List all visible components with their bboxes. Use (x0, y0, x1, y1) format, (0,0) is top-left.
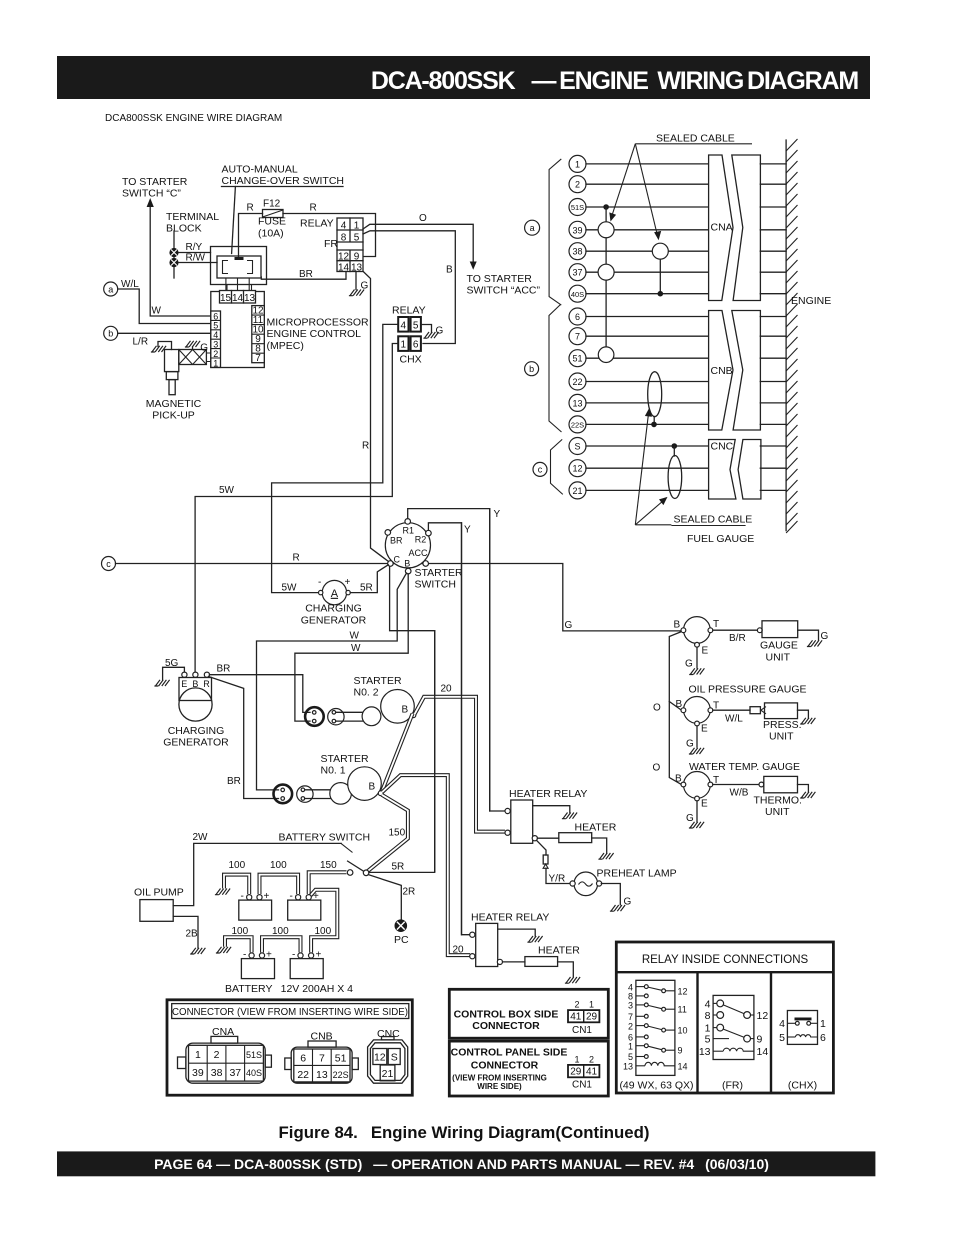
svg-text:SEALED CABLE: SEALED CABLE (656, 133, 735, 145)
svg-text:W: W (152, 306, 162, 317)
svg-text:CHARGING: CHARGING (305, 603, 362, 615)
footer bar (57, 1151, 875, 1176)
charging generator A (meter) (282, 577, 373, 627)
svg-text:-: - (290, 891, 293, 902)
svg-text:5: 5 (705, 1034, 711, 1046)
header bar (57, 56, 870, 99)
heater 2 (503, 945, 581, 984)
svg-text:22S: 22S (571, 421, 584, 430)
wire 5R battery switch to label (369, 862, 435, 873)
wire Y restroke over crossings (435, 509, 490, 935)
svg-text:3: 3 (628, 1001, 633, 1011)
wire 2W oil pump to battery switch (173, 832, 341, 906)
svg-text:CNC: CNC (711, 441, 734, 453)
svg-text:B: B (369, 782, 376, 793)
wire W/L oil gauge T to press unit (713, 707, 766, 725)
svg-text:MICROPROCESSOR: MICROPROCESSOR (267, 317, 370, 329)
node 1 (569, 155, 786, 172)
svg-text:b: b (529, 364, 534, 374)
starter no.1 label (321, 753, 369, 777)
svg-text:R: R (293, 553, 300, 564)
svg-text:13: 13 (572, 398, 582, 408)
svg-text:41: 41 (586, 1067, 598, 1078)
svg-text:4: 4 (341, 221, 347, 232)
svg-text:CONNECTOR: CONNECTOR (472, 1020, 540, 1032)
starter no.2 label (354, 675, 402, 699)
svg-text:B: B (402, 705, 409, 716)
brace a (549, 159, 561, 305)
page subtitle (105, 113, 282, 124)
svg-text:CNA: CNA (711, 222, 733, 234)
svg-text:RELAY INSIDE CONNECTIONS: RELAY INSIDE CONNECTIONS (642, 954, 809, 966)
svg-text:R1: R1 (403, 526, 415, 536)
svg-text:51S: 51S (571, 203, 584, 212)
svg-text:9: 9 (354, 252, 360, 263)
node 12 (569, 460, 786, 477)
label TO STARTER SWITCH "C" (122, 176, 188, 200)
svg-text:BR: BR (227, 776, 241, 787)
sealed cable label (top) with leader arrows (609, 133, 752, 241)
svg-text:BR: BR (299, 269, 313, 280)
control box side connector (449, 989, 608, 1038)
svg-text:13: 13 (244, 293, 256, 304)
svg-text:+: + (316, 950, 322, 961)
svg-text:OIL PRESSURE GAUGE: OIL PRESSURE GAUGE (689, 684, 807, 696)
svg-text:G: G (686, 739, 694, 750)
link 100 battery 1 plus to battery 2 minus (260, 860, 299, 894)
oil pressure gauge (676, 684, 807, 735)
node b (L/R) (104, 326, 211, 347)
svg-text:CONTROL BOX SIDE: CONTROL BOX SIDE (454, 1008, 559, 1020)
svg-text:S: S (391, 1052, 398, 1064)
svg-text:-: - (318, 577, 321, 588)
svg-text:7: 7 (255, 353, 261, 364)
svg-text:14: 14 (232, 293, 244, 304)
starter switch (385, 519, 463, 591)
node 39 (569, 221, 786, 238)
svg-text:9: 9 (757, 1034, 763, 1046)
wire R/W (179, 253, 217, 264)
starter no.1 connector and motor (274, 767, 384, 804)
svg-text:(CHX): (CHX) (788, 1080, 817, 1092)
wire BR relay FR to change-over switch (261, 269, 346, 280)
svg-text:2B: 2B (186, 929, 199, 940)
svg-text:CNB: CNB (711, 365, 733, 377)
svg-text:GENERATOR: GENERATOR (301, 615, 367, 627)
svg-text:150: 150 (389, 828, 406, 839)
svg-text:W: W (351, 643, 361, 654)
svg-text:Y: Y (494, 509, 501, 520)
wire B relay to CHX pin 6 (363, 231, 455, 344)
relay CHX internals (779, 1011, 826, 1092)
svg-text:CNC: CNC (377, 1028, 400, 1040)
svg-text:C: C (394, 554, 401, 564)
connector CNB (709, 311, 761, 431)
svg-text:R: R (203, 679, 210, 689)
ground at magnetic pick-up left (151, 342, 172, 353)
svg-text:Y: Y (464, 525, 471, 536)
svg-text:5: 5 (779, 1032, 785, 1044)
svg-text:+: + (313, 891, 319, 902)
wire W/B water gauge T to thermo unit (713, 785, 759, 799)
auto-manual change-over switch body (211, 247, 267, 291)
svg-text:HEATER: HEATER (538, 945, 580, 957)
svg-text:R/Y: R/Y (186, 242, 203, 253)
svg-text:1: 1 (354, 221, 360, 232)
svg-text:37: 37 (229, 1067, 241, 1079)
svg-text:20: 20 (453, 945, 465, 956)
svg-text:O: O (419, 213, 427, 224)
node 7 (569, 328, 786, 345)
svg-text:DCA800SSK ENGINE WIRE DIAGRAM: DCA800SSK ENGINE WIRE DIAGRAM (105, 113, 282, 124)
svg-text:W/B: W/B (730, 788, 749, 799)
svg-text:+: + (266, 950, 272, 961)
wire 150 from starter no.1 B to battery switch (367, 795, 408, 872)
svg-text:ENGINE: ENGINE (791, 295, 831, 307)
svg-text:100: 100 (270, 860, 287, 871)
press unit (763, 703, 815, 743)
svg-text:PREHEAT LAMP: PREHEAT LAMP (597, 868, 677, 880)
heater relay 2 (453, 912, 550, 967)
svg-text:(10A): (10A) (258, 228, 284, 240)
svg-text:21: 21 (382, 1068, 394, 1080)
svg-text:7: 7 (319, 1053, 325, 1065)
node b marker (525, 362, 539, 376)
svg-text:1: 1 (589, 999, 594, 1009)
svg-text:R: R (362, 441, 369, 452)
svg-text:N0. 1: N0. 1 (321, 765, 346, 777)
svg-text:6: 6 (413, 340, 419, 351)
svg-text:BLOCK: BLOCK (166, 223, 202, 235)
svg-text:AUTO-MANUAL: AUTO-MANUAL (222, 164, 298, 176)
splice chain 51S-39-37-51 (598, 204, 614, 362)
connector CNC (view) (368, 1028, 408, 1083)
svg-text:UNIT: UNIT (765, 806, 790, 818)
svg-text:O: O (653, 763, 661, 774)
svg-text:T: T (713, 619, 719, 630)
wire R from relay FR to starter switch C (362, 272, 389, 562)
gauge unit (757, 621, 828, 664)
svg-text:CHANGE-OVER SWITCH: CHANGE-OVER SWITCH (222, 175, 345, 187)
fusible link to preheat lamp (537, 840, 571, 884)
svg-text:100: 100 (229, 860, 246, 871)
svg-text:STARTER: STARTER (321, 753, 369, 765)
ground at heater relay 2 coil (498, 929, 543, 942)
svg-text:CHX: CHX (400, 354, 422, 366)
wire 20 between starter B terminals (382, 714, 413, 792)
svg-text:a: a (108, 284, 113, 294)
battery 2 (288, 891, 321, 920)
ground at water gauge E (686, 801, 704, 828)
svg-text:UNIT: UNIT (769, 731, 794, 743)
wire 5W CHX pin 1 to charging generator B (195, 344, 398, 673)
svg-text:5R: 5R (360, 583, 373, 594)
heater 1 (537, 822, 616, 860)
node 51S (569, 199, 786, 216)
svg-text:13: 13 (623, 1062, 633, 1072)
svg-text:B: B (676, 699, 683, 710)
svg-text:B: B (674, 620, 681, 631)
wire O fuel gauge B down to oil and water gauges (653, 632, 682, 784)
svg-text:29: 29 (570, 1067, 582, 1078)
svg-text:22: 22 (572, 377, 582, 387)
svg-text:-: - (241, 891, 244, 902)
svg-text:CN1: CN1 (572, 1079, 592, 1090)
svg-text:13: 13 (316, 1069, 328, 1081)
svg-text:SEALED CABLE: SEALED CABLE (674, 514, 753, 526)
node 40S (569, 285, 786, 302)
svg-text:G: G (200, 343, 208, 354)
relay CHX box (398, 317, 421, 351)
node S (569, 438, 786, 455)
svg-text:B/R: B/R (729, 633, 746, 644)
wire R fuse to relay (283, 203, 376, 257)
svg-text:a: a (530, 223, 535, 233)
svg-text:OIL PUMP: OIL PUMP (134, 887, 184, 899)
node a marker (525, 220, 540, 235)
svg-text:GENERATOR: GENERATOR (163, 737, 229, 749)
link battery 2 plus to battery 4 plus (311, 890, 338, 953)
water temp gauge (675, 761, 800, 810)
svg-text:R: R (310, 203, 317, 214)
oil pump (134, 887, 184, 922)
svg-text:E: E (701, 799, 708, 810)
svg-text:-: - (243, 950, 246, 961)
wire W from switch B to starter no.2 (295, 574, 408, 721)
wire O to starter switch ACC (363, 213, 540, 297)
svg-text:1: 1 (820, 1018, 826, 1030)
wire Y from R2 to heater relay 2 (428, 523, 471, 935)
svg-text:1: 1 (628, 1041, 633, 1051)
svg-text:8: 8 (341, 233, 347, 244)
brace b (549, 305, 562, 433)
starter no.2 connector and motor (305, 690, 416, 726)
svg-text:51: 51 (335, 1053, 347, 1065)
svg-text:TO STARTER: TO STARTER (122, 176, 188, 188)
svg-text:CONNECTOR (VIEW FROM INSERTING: CONNECTOR (VIEW FROM INSERTING WIRE SIDE… (172, 1007, 408, 1018)
svg-text:HEATER RELAY: HEATER RELAY (471, 912, 549, 924)
control panel side connector (449, 1041, 608, 1096)
fuse F12 (10A) (258, 199, 286, 240)
svg-text:E: E (181, 679, 187, 689)
node 21 (569, 482, 786, 499)
svg-text:-: - (292, 950, 295, 961)
svg-text:5: 5 (354, 233, 360, 244)
svg-text:BATTERY SWITCH: BATTERY SWITCH (279, 832, 371, 844)
battery 3 (241, 950, 274, 979)
svg-text:40S: 40S (246, 1068, 262, 1078)
ground at oil gauge E (686, 726, 704, 754)
svg-text:2: 2 (575, 180, 580, 190)
svg-text:O: O (653, 703, 661, 714)
svg-text:51S: 51S (246, 1050, 262, 1060)
svg-text:11: 11 (678, 1005, 687, 1015)
svg-text:12: 12 (678, 986, 688, 996)
svg-text:RELAY: RELAY (300, 218, 334, 230)
svg-text:38: 38 (211, 1067, 223, 1079)
label AUTO-MANUAL CHANGE-OVER SWITCH (222, 164, 345, 254)
ground G at relay FR (349, 272, 369, 296)
svg-text:W/L: W/L (725, 714, 743, 725)
svg-text:E: E (701, 724, 708, 735)
svg-text:c: c (106, 559, 111, 569)
preheat lamp (570, 868, 677, 912)
svg-text:8: 8 (705, 1010, 711, 1022)
svg-text:FR: FR (324, 238, 338, 250)
svg-text:21: 21 (572, 486, 582, 496)
svg-text:4: 4 (705, 998, 711, 1010)
twisted pair loop 12/21 (668, 443, 682, 498)
svg-text:13: 13 (699, 1046, 711, 1058)
svg-text:STARTER: STARTER (354, 675, 402, 687)
svg-text:14: 14 (678, 1062, 688, 1072)
svg-text:39: 39 (572, 225, 582, 235)
svg-text:2R: 2R (403, 887, 416, 898)
svg-text:WATER TEMP. GAUGE: WATER TEMP. GAUGE (689, 761, 800, 773)
wire B/R fuel gauge T to gauge unit (713, 630, 758, 644)
svg-text:39: 39 (192, 1067, 204, 1079)
wire BR generator R to starter no.2 (210, 664, 311, 713)
svg-text:STARTER: STARTER (415, 567, 463, 579)
svg-text:SWITCH: SWITCH (415, 579, 456, 591)
link 100 ground to battery 3 minus (225, 926, 252, 953)
svg-text:DCA-800SSK — ENGINE WIRING D: DCA-800SSK — ENGINE WIRING DIAGRAM (371, 67, 859, 95)
svg-text:FUEL GAUGE: FUEL GAUGE (687, 533, 754, 545)
svg-text:SWITCH “ACC”: SWITCH “ACC” (467, 285, 541, 297)
svg-text:40S: 40S (571, 290, 584, 299)
brace c (551, 439, 563, 494)
svg-text:ACC: ACC (409, 548, 429, 558)
wire 20 from starter no.1 B to heater relay 2 (382, 775, 470, 955)
connector CNA (709, 155, 761, 301)
svg-text:13: 13 (351, 262, 363, 273)
svg-text:2: 2 (574, 999, 579, 1009)
svg-text:S: S (574, 442, 580, 452)
twisted pair loop 22/13 (648, 372, 662, 428)
node 6 (569, 308, 786, 325)
svg-text:7: 7 (575, 332, 580, 342)
svg-text:L/R: L/R (133, 337, 149, 348)
charging generator (main) (154, 658, 229, 749)
svg-text:5: 5 (413, 320, 419, 331)
svg-text:29: 29 (586, 1012, 598, 1023)
battery 4 (290, 950, 323, 979)
link 100 battery 3 plus to battery 4 minus (262, 926, 301, 953)
wire W from switch B to starter no.1 (257, 573, 407, 790)
node 22S (569, 416, 786, 433)
svg-text:6: 6 (300, 1053, 306, 1065)
svg-text:14: 14 (338, 262, 350, 273)
microprocessor engine control MPEC (211, 291, 369, 369)
wire W to starter switch C with up arrow (147, 198, 211, 316)
svg-text:UNIT: UNIT (766, 652, 791, 664)
svg-text:5W: 5W (219, 485, 235, 496)
connector view box (167, 1000, 412, 1095)
svg-text:2W: 2W (193, 832, 209, 843)
svg-text:b: b (108, 329, 113, 339)
heater relay 1 (505, 788, 587, 843)
svg-text:G: G (565, 620, 573, 631)
svg-text:51: 51 (572, 354, 582, 364)
wire CHX pin 4 to charging generator A minus (272, 324, 398, 592)
relay FR box (337, 218, 363, 273)
svg-text:BATTERY 12V 200AH X 4: BATTERY 12V 200AH X 4 (225, 983, 353, 995)
svg-text:10: 10 (678, 1026, 688, 1036)
svg-text:RELAY: RELAY (392, 305, 426, 317)
node c marker (533, 462, 547, 476)
wire 20 from starter no.2 B to heater relay 1 (415, 684, 506, 832)
svg-text:G: G (685, 659, 693, 670)
link 100 ground to battery 1 minus (224, 860, 249, 894)
svg-text:1: 1 (574, 1055, 579, 1065)
svg-text:38: 38 (572, 247, 582, 257)
svg-text:22S: 22S (333, 1070, 349, 1080)
wire 5R battery switch to starter switch B (390, 567, 435, 872)
svg-text:15: 15 (220, 293, 232, 304)
battery bank ground (top) (215, 889, 230, 895)
svg-text:150: 150 (320, 860, 337, 871)
wire BR generator R to starter no.1 (209, 677, 279, 799)
node 38 (569, 243, 786, 260)
svg-text:TO STARTER: TO STARTER (467, 273, 533, 285)
wire R fuse left (239, 203, 263, 257)
svg-text:6: 6 (575, 312, 580, 322)
svg-text:1: 1 (575, 159, 580, 169)
svg-text:TERMINAL: TERMINAL (166, 211, 219, 223)
magnetic pick-up (146, 350, 211, 422)
ground at heater relay 1 coil (533, 806, 577, 819)
link 150 battery 2 plus to battery switch (309, 860, 347, 894)
thermo unit (754, 776, 816, 818)
svg-text:W: W (350, 631, 360, 642)
svg-text:(49 WX, 63 QX): (49 WX, 63 QX) (619, 1080, 693, 1092)
svg-text:CONTROL PANEL SIDE: CONTROL PANEL SIDE (451, 1046, 568, 1058)
figure caption (279, 1123, 650, 1142)
svg-text:WIRE SIDE): WIRE SIDE) (477, 1082, 522, 1091)
svg-text:5W: 5W (282, 583, 298, 594)
ground G at CHX pin 5 (422, 325, 444, 339)
battery bank ground (bottom) (216, 947, 231, 953)
svg-text:CHARGING: CHARGING (168, 725, 225, 737)
svg-text:37: 37 (572, 268, 582, 278)
sealed cable label (bottom) with leader arrows (635, 408, 752, 526)
svg-text:(MPEC): (MPEC) (267, 340, 304, 352)
svg-text:THERMO.: THERMO. (754, 795, 802, 807)
node c (left) (102, 557, 116, 571)
svg-text:9: 9 (678, 1046, 683, 1056)
relay FR internals (699, 995, 769, 1091)
battery 1 (239, 891, 272, 920)
svg-text:Figure 84. Engine Wiring Diag: Figure 84. Engine Wiring Diagram(Continu… (279, 1123, 650, 1142)
relay inside connections box (616, 942, 833, 1093)
svg-text:100: 100 (315, 926, 332, 937)
svg-text:1: 1 (401, 340, 407, 351)
svg-text:R: R (247, 203, 254, 214)
battery switch (279, 832, 371, 876)
svg-text:R2: R2 (415, 535, 427, 545)
svg-text:B: B (675, 774, 682, 785)
svg-text:A: A (331, 588, 339, 600)
svg-text:12: 12 (572, 464, 582, 474)
svg-text:+: + (264, 891, 270, 902)
node 22 (569, 373, 786, 390)
svg-text:ENGINE CONTROL: ENGINE CONTROL (267, 328, 362, 340)
svg-text:PICK-UP: PICK-UP (152, 410, 195, 422)
connector CNC (709, 440, 761, 500)
node 13 (569, 394, 786, 411)
svg-text:41: 41 (570, 1012, 582, 1023)
svg-text:B: B (446, 265, 453, 276)
